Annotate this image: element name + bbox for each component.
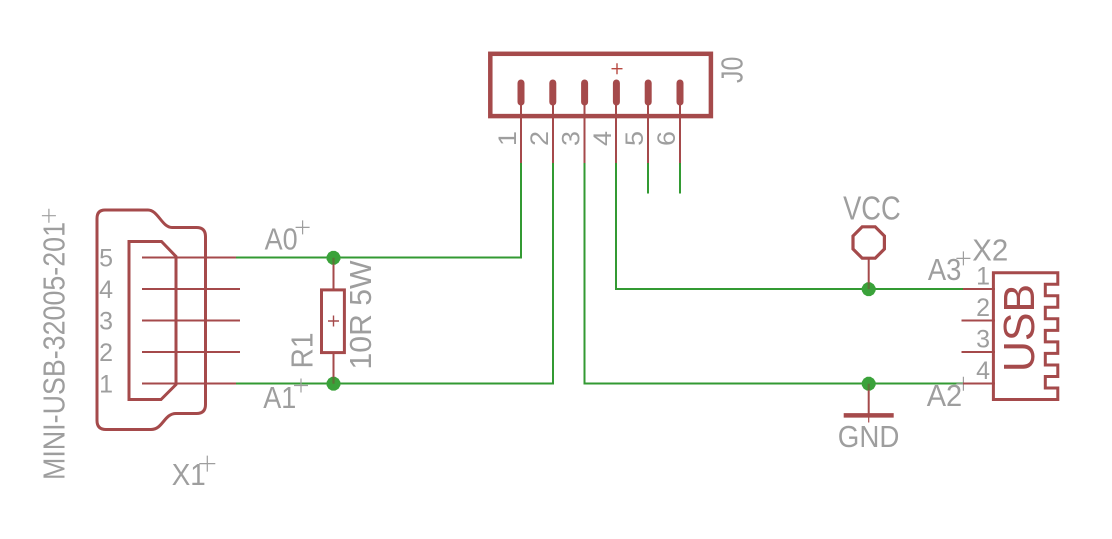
GND junction overlap stripe (868, 384, 870, 391)
X2 pin 4 line (963, 383, 995, 385)
J0 pin 4 lead (615, 104, 617, 163)
wire A2 vertical from J0 pin 3 (584, 163, 586, 385)
A2 origin cross (956, 377, 970, 391)
R1 top junction overlap stripe (332, 258, 334, 265)
connector J0 box (490, 54, 711, 116)
svg-text:A1: A1 (263, 380, 296, 415)
VCC symbol circle (853, 227, 884, 258)
svg-text:VCC: VCC (843, 190, 901, 227)
svg-text:X2: X2 (972, 233, 1008, 268)
junction at R1 bottom (A1) (327, 377, 341, 391)
svg-text:2: 2 (99, 339, 113, 367)
svg-text:X1: X1 (172, 457, 206, 492)
X1 value origin cross (42, 209, 56, 223)
junction at VCC (A3) (862, 282, 876, 296)
svg-text:3: 3 (976, 326, 990, 354)
svg-text:J0: J0 (715, 57, 750, 83)
svg-text:3: 3 (99, 308, 113, 336)
svg-text:10R 5W: 10R 5W (343, 260, 378, 370)
wire A3 horizontal (615, 288, 964, 290)
svg-text:A0: A0 (265, 222, 298, 257)
svg-text:1: 1 (494, 131, 522, 146)
X1 pin 4 line (142, 288, 240, 290)
X2 pin 2 line (962, 320, 996, 322)
J0 pad 1 (518, 80, 525, 106)
J0 pad 6 (677, 80, 684, 106)
svg-text:GND: GND (838, 419, 900, 454)
X1 name origin cross (199, 456, 215, 472)
R1 bottom junction overlap stripe (332, 377, 334, 384)
J0 pad 2 (549, 80, 556, 106)
svg-text:1: 1 (99, 371, 113, 399)
wire A3 vertical from J0 pin 4 (615, 163, 617, 290)
X2 pin 3 line (962, 351, 996, 353)
junction at R1 top (A0) (327, 251, 341, 265)
wire A1 horizontal (236, 383, 553, 385)
J0 pin 1 lead (520, 104, 522, 163)
J0 pad 5 (645, 80, 652, 106)
wire stub J0 pin 5 (647, 163, 649, 194)
X1 pin 3 line (142, 320, 240, 322)
X1 pin 5 line (142, 257, 236, 259)
GND origin cross (862, 408, 877, 423)
svg-text:2: 2 (526, 131, 554, 146)
wire A0 horizontal (236, 257, 521, 259)
connector X2 body with contact teeth (993, 273, 1057, 400)
svg-text:4: 4 (976, 357, 990, 385)
J0 pin 2 lead (552, 104, 554, 163)
A1 origin cross (294, 379, 308, 393)
J0 pad 3 (581, 80, 588, 106)
resistor R1 body (322, 290, 345, 353)
X1 pin 2 line (142, 351, 240, 353)
X1 pin 1 line (142, 383, 236, 385)
J0 pin 3 lead (584, 104, 586, 163)
GND stem (868, 390, 870, 415)
svg-text:4: 4 (589, 131, 617, 146)
svg-text:MINI-USB-32005-201: MINI-USB-32005-201 (37, 222, 72, 480)
J0 pin 5 lead (647, 104, 649, 163)
svg-text:R1: R1 (285, 333, 320, 369)
svg-text:6: 6 (653, 131, 681, 146)
svg-text:A3: A3 (928, 252, 962, 287)
svg-text:USB: USB (995, 284, 1044, 372)
J0 origin cross (612, 63, 623, 74)
svg-text:5: 5 (99, 245, 113, 273)
svg-text:3: 3 (558, 131, 586, 146)
resistor R1 stem bottom (333, 353, 335, 378)
R1 origin cross (328, 316, 339, 327)
VCC stem (868, 259, 870, 283)
X2 pin 1 line (963, 288, 995, 290)
wire A1 vertical to J0 pin 2 (552, 163, 554, 385)
svg-text:4: 4 (99, 276, 113, 304)
VCC junction overlap stripe (868, 283, 870, 290)
svg-text:5: 5 (621, 131, 649, 146)
A0 origin cross (296, 220, 310, 234)
wire A0 vertical to J0 pin 1 (520, 163, 522, 259)
GND bar (844, 413, 894, 418)
svg-text:2: 2 (976, 294, 990, 322)
connector X1 inner shield (129, 242, 176, 400)
wire A2 horizontal (584, 383, 964, 385)
wire stub J0 pin 6 (679, 163, 681, 194)
J0 pin 6 lead (679, 104, 681, 163)
A3 origin cross (956, 251, 970, 265)
J0 pad 4 (613, 80, 620, 106)
resistor R1 stem top (333, 264, 335, 290)
connector X1 outer shell (97, 210, 206, 430)
junction at GND (A2) (862, 377, 876, 391)
